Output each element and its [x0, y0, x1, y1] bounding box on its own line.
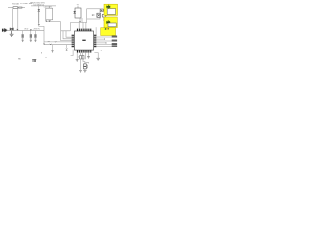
- U1 bottom pins: [77, 50, 91, 53]
- text label above regulator: [44, 6, 52, 8]
- termination bar row5: [112, 44, 117, 45]
- U1 left pins: [72, 35, 75, 47]
- wire: into LED1: [100, 9, 105, 11]
- junction arrow row2 left: [43, 43, 45, 46]
- wire: U2 bottom stubs: [46, 19, 49, 22]
- ground bottom far right: [96, 58, 100, 60]
- wire: top-left link: [8, 7, 25, 9]
- arrow junction at U2 bottom right: [49, 19, 51, 22]
- termination bar row6: [112, 45, 117, 48]
- LED1 star symbol: [106, 5, 110, 9]
- text pin number 1: [78, 56, 80, 58]
- wire: D1 to bus L-path: [39, 25, 44, 31]
- resistor R5 body: [18, 7, 22, 8]
- connector mark dot: [101, 10, 102, 11]
- capacitor C8 body: [80, 56, 82, 60]
- wire: +3.3V bus horizontal: [2, 30, 44, 32]
- wire: VCC rail above IC: [70, 19, 86, 23]
- capacitor C2 body: [13, 7, 18, 9]
- note gray mark: [107, 28, 110, 29]
- text Y1 label: [77, 4, 79, 6]
- termination bar row1: [112, 36, 117, 37]
- capacitor C2 label: [20, 3, 28, 5]
- ground under crystal right: [83, 70, 86, 72]
- text net label VDD: [24, 29, 29, 31]
- diode D1 bar: [38, 12, 40, 24]
- LED2 inner white box: [108, 23, 116, 27]
- wire: drop x52.5: [52, 45, 54, 51]
- wire: link y30.8: [61, 23, 71, 31]
- LED2 highlight box (yellow): [104, 17, 117, 28]
- wire: stubs to IC top pins: [79, 22, 86, 28]
- wire: S1 top stub: [77, 6, 79, 8]
- capacitor C6 body: [30, 35, 32, 38]
- junction arrow row2 mid: [50, 43, 52, 46]
- wire: second row y44.7: [44, 42, 72, 45]
- K1 inner dot: [98, 14, 101, 16]
- connector J2 comb: [32, 60, 36, 63]
- wire: right pin row 6: [96, 46, 117, 48]
- svg-text:VDD: VDD: [24, 29, 29, 31]
- ground C7: [34, 40, 36, 42]
- junction arrow on bus: [30, 28, 31, 31]
- ground bottom right pin: [87, 57, 90, 59]
- text pin number 4: [45, 57, 47, 59]
- ground at x52.5: [51, 51, 53, 53]
- wire: right pin row 4 (short): [96, 42, 106, 44]
- text label row2b: [34, 4, 45, 6]
- arrow junction at U2 bottom left: [45, 20, 47, 23]
- text inside loop: [92, 13, 95, 17]
- wire: bottom-left pin L-stub: [71, 50, 74, 56]
- text label row2 top: [30, 2, 45, 4]
- connector mark 2: [102, 14, 105, 17]
- switch S1 box: [75, 8, 81, 18]
- component K1 small box: [97, 13, 101, 17]
- capacitor C5 under bus: [22, 31, 24, 40]
- wire: drop from C2 to bus: [12, 9, 14, 31]
- wire: right pin row 3: [96, 40, 117, 42]
- ground under crystal left: [79, 70, 82, 72]
- U1 top pins: [77, 29, 91, 32]
- ground for D2: [10, 31, 14, 37]
- diode D1 triangle: [38, 9, 40, 11]
- svg-text:+3V3 IN: +3V3 IN: [33, 29, 41, 31]
- junction arrow on bus left: [17, 28, 18, 31]
- LED1 highlight box (yellow): [104, 4, 118, 15]
- connector mark on LED1 wire: [100, 9, 103, 12]
- wire: crystal side loop: [85, 62, 89, 70]
- switch S1 actuator: [74, 11, 76, 13]
- wire: right pin row 5: [96, 44, 117, 46]
- wire: drop x60.7 to IC pin: [61, 22, 72, 41]
- arrow junction at D1 bottom: [38, 23, 40, 26]
- LED1 inner white box: [107, 9, 115, 15]
- wire: drop from R5 to bus: [17, 8, 19, 31]
- svg-text:1: 1: [78, 56, 80, 58]
- svg-text:1=: 1=: [92, 13, 95, 17]
- ground under pin drop 1: [76, 60, 79, 62]
- note red mark: [106, 28, 109, 29]
- wire: top rail: [31, 5, 56, 7]
- svg-text:C2 100n: C2 100n: [20, 3, 28, 5]
- wire: right pin row 2 (short): [96, 38, 104, 40]
- tick row4: [105, 42, 107, 43]
- wire: bottom pin drops: [77, 53, 88, 60]
- U1 part label: [82, 40, 85, 41]
- wire: U2 top lead: [48, 6, 50, 8]
- capacitor C1 label: [12, 3, 19, 5]
- wire: note feed: [95, 27, 97, 36]
- junction arrow on VCC rail: [79, 20, 81, 23]
- wire: drop x66.6: [66, 45, 68, 49]
- tick row2: [103, 38, 105, 39]
- wire: right pin row 1: [96, 36, 117, 38]
- svg-text:s: s: [101, 50, 102, 52]
- ground C6: [30, 40, 32, 42]
- text tiny mark J1: [40, 52, 42, 53]
- ground C5: [22, 40, 24, 42]
- diode D1 lead: [38, 6, 40, 9]
- text bottom-left VCC: [18, 58, 21, 60]
- wire: between LED boxes: [102, 16, 107, 21]
- capacitor C4 (polarized, bus input): [2, 28, 7, 32]
- text net label 3V3: [33, 29, 41, 31]
- svg-text:4: 4: [45, 57, 47, 59]
- capacitor C3 label: [29, 3, 33, 5]
- svg-text:R1 10K: R1 10K: [12, 3, 19, 5]
- wire: branch x66 to IC pin: [66, 31, 72, 37]
- svg-text:ss: ss: [18, 58, 21, 60]
- note highlight box (yellow solid): [101, 28, 116, 36]
- capacitor C5 body: [22, 35, 24, 38]
- arrow ground x66.6: [66, 49, 68, 51]
- junction arrow on PA wire: [48, 40, 50, 43]
- crystal Y2 box upper: [84, 64, 87, 66]
- crystal Y2 box lower: [84, 67, 87, 69]
- wire: branch down from bus to PA wire: [44, 31, 72, 42]
- termination bar row3: [112, 40, 117, 41]
- capacitor C7 body: [34, 35, 36, 38]
- capacitor C6 under bus: [30, 31, 32, 40]
- wire: feedback loop box: [87, 9, 100, 19]
- wire: bottom right L: [94, 53, 98, 58]
- capacitor C9 body: [82, 56, 84, 60]
- wire: C9 to crystal: [83, 59, 85, 64]
- junction arrow on PA wire 2: [55, 40, 57, 43]
- regulator U2 box: [46, 8, 53, 20]
- wire: C8 to ground: [80, 59, 82, 70]
- op IC U1 body: [75, 31, 94, 50]
- note green mark: [105, 28, 106, 30]
- capacitor C7 under bus: [34, 31, 36, 40]
- U1 right pins: [94, 35, 97, 47]
- text small right: [101, 50, 102, 52]
- diode D2 above bus: [10, 28, 13, 31]
- wire: mid rail from U2: [46, 21, 61, 23]
- LED2 star symbol: [106, 20, 110, 24]
- wire: branch x63 to IC pin: [63, 31, 72, 39]
- wire: S1 bottom leads: [80, 18, 82, 22]
